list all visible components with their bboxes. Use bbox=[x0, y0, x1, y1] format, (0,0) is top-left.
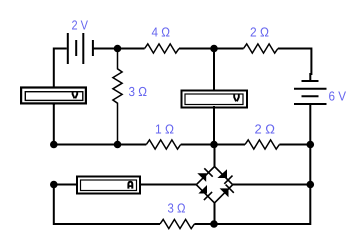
bridge arm bottom-left bbox=[196, 185, 214, 203]
wire voltmeter V1 bottom lead to node C bbox=[53, 104, 55, 145]
wire resistor R5 to node F bbox=[279, 144, 310, 146]
wire bridge right vertex to node H bbox=[233, 184, 311, 186]
svg-text:4 Ω: 4 Ω bbox=[152, 25, 171, 40]
wire node I to resistor R6 bbox=[194, 223, 214, 225]
ammeter A1 inner box bbox=[81, 180, 137, 191]
wire node D to resistor R4 bbox=[118, 144, 147, 146]
node F junction dot bbox=[307, 141, 315, 149]
wire node E to bridge top vertex bbox=[214, 145, 216, 167]
ammeter A1 outer box bbox=[77, 177, 140, 194]
wire node G to ammeter A1 bbox=[54, 184, 76, 186]
wire node A to resistor R1 bbox=[118, 48, 145, 50]
ammeter A1 letter A bbox=[128, 182, 132, 189]
wire bridge bottom vertex to node I bbox=[214, 203, 216, 224]
wire node H down right rail to bottom corner bbox=[214, 185, 310, 225]
wire resistor R4 to node E bbox=[181, 144, 214, 146]
bridge arm bottom-right bbox=[215, 185, 233, 203]
wire battery B1 to node A bbox=[93, 48, 118, 50]
resistor R2 2ohm zigzag bbox=[244, 44, 278, 53]
svg-text:3 Ω: 3 Ω bbox=[129, 84, 148, 99]
diode D2 top-right (points to right vertex) bbox=[217, 169, 232, 184]
diode D4 bottom-right (points to right vertex) bbox=[220, 185, 234, 198]
node G junction dot bbox=[50, 181, 58, 189]
voltmeter V2 outer box bbox=[182, 91, 248, 108]
wire resistor R6 to bottom-left corner up to node G bbox=[54, 185, 160, 225]
resistor R3 3ohm vertical zigzag bbox=[113, 49, 122, 145]
resistor R1 4ohm zigzag bbox=[145, 44, 179, 53]
resistor R6 3ohm zigzag bottom bbox=[160, 219, 194, 228]
node H junction dot bbox=[307, 181, 315, 189]
resistor R5 2ohm zigzag bbox=[245, 140, 279, 149]
wire middle voltmeter V2 top lead bbox=[213, 49, 215, 93]
resistor R4 1ohm zigzag bbox=[146, 140, 180, 149]
wire voltmeter V1 top lead bbox=[53, 86, 55, 105]
wire resistor R2 to top-right corner down to battery B2 bbox=[278, 49, 312, 82]
battery B1 2V plate long right bbox=[82, 33, 84, 64]
node D junction dot bbox=[114, 141, 122, 149]
voltmeter V1 letter V bbox=[73, 91, 78, 98]
node A junction dot bbox=[114, 45, 122, 53]
battery B1 2V plate long left bbox=[67, 33, 69, 64]
node B junction dot bbox=[210, 45, 218, 53]
svg-text:2 Ω: 2 Ω bbox=[250, 25, 269, 40]
wire voltmeter V2 bottom lead to node E bbox=[213, 106, 215, 145]
wire ammeter A1 to bridge left vertex bbox=[141, 184, 196, 186]
wire node B to resistor R2 bbox=[214, 48, 244, 50]
svg-text:3 Ω: 3 Ω bbox=[168, 201, 186, 216]
battery B2 6V plate long upper bbox=[294, 88, 327, 90]
battery B1 2V plate short left bbox=[75, 40, 77, 56]
battery B2 6V plate short lower bbox=[302, 95, 319, 97]
wire battery B2 to node F bbox=[309, 104, 311, 145]
node I junction dot bbox=[210, 220, 218, 228]
svg-text:1 Ω: 1 Ω bbox=[155, 122, 174, 137]
diode D3 bottom-left (points to bottom vertex) bbox=[198, 185, 212, 200]
svg-text:2 V: 2 V bbox=[72, 18, 89, 33]
voltmeter V2 inner box bbox=[185, 94, 243, 105]
battery B1 2V plate short right bbox=[92, 40, 94, 56]
node E junction dot bbox=[210, 141, 218, 149]
battery B2 6V plate short top bbox=[302, 80, 319, 82]
battery B2 6V plate long bottom bbox=[294, 103, 327, 105]
voltmeter V2 letter V bbox=[234, 94, 239, 101]
voltmeter V1 outer box bbox=[21, 88, 86, 104]
svg-text:6 V: 6 V bbox=[329, 89, 347, 104]
bridge arm top-right bbox=[215, 167, 233, 185]
wire node F to node H right rail bbox=[309, 145, 311, 185]
bridge arm top-left bbox=[196, 167, 214, 185]
wire node C to node D bbox=[54, 144, 118, 146]
voltmeter V1 inner box bbox=[25, 92, 83, 101]
diode D1 top-left (points to top vertex) bbox=[197, 168, 212, 182]
svg-text:2 Ω: 2 Ω bbox=[255, 122, 276, 137]
wire node E to resistor R5 bbox=[214, 144, 245, 146]
wire top rail left segment (corner to battery B1) bbox=[54, 49, 67, 87]
wire resistor R1 to node B bbox=[179, 48, 214, 50]
node C junction dot bbox=[50, 141, 58, 149]
